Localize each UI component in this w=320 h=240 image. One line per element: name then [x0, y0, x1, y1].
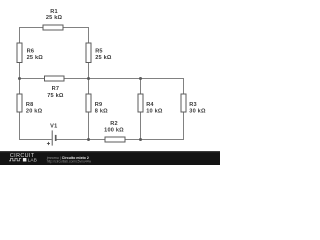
- svg-text:LAB: LAB: [28, 158, 37, 164]
- node junction middle R4: [139, 77, 142, 80]
- svg-text:25 kΩ: 25 kΩ: [46, 15, 63, 21]
- svg-text:R5: R5: [95, 48, 103, 54]
- wire R2 to bottom-right corner up to R3: [125, 112, 183, 140]
- node junction bottom R4: [139, 138, 142, 141]
- svg-text:R9: R9: [95, 102, 103, 108]
- svg-text:R8: R8: [26, 102, 34, 108]
- svg-text:R6: R6: [27, 48, 35, 54]
- wire R8 top: [19, 79, 21, 94]
- svg-text:8 kΩ: 8 kΩ: [95, 109, 108, 115]
- svg-text:V1: V1: [50, 124, 57, 130]
- wire R5 bottom to middle bus: [88, 63, 90, 80]
- resistor R6 25k body: [17, 43, 22, 63]
- wire battery to R2: [56, 139, 105, 141]
- svg-text:20 kΩ: 20 kΩ: [26, 109, 43, 115]
- wire top-right corner (R1 to R5): [64, 28, 89, 44]
- resistor R8 20k body: [17, 94, 22, 112]
- wire top-left corner (node A to R1): [20, 28, 43, 44]
- wire R4 top: [140, 79, 142, 94]
- logo square wave: [9, 158, 21, 160]
- svg-text:R2: R2: [110, 121, 118, 127]
- resistor R9 8k body: [86, 94, 91, 112]
- resistor R3 30k body: [181, 94, 186, 112]
- resistor R2 100k body: [105, 137, 125, 142]
- logo square: [23, 158, 27, 162]
- svg-text:R1: R1: [50, 9, 58, 15]
- wire R8 bottom with corner to battery: [20, 112, 52, 140]
- resistor R4 10k body: [138, 94, 143, 112]
- wire R4 bottom: [140, 112, 142, 140]
- battery V1 long plate: [51, 130, 53, 145]
- svg-text:http://circuitlab.com/c5vnu44w: http://circuitlab.com/c5vnu44w: [47, 160, 92, 164]
- svg-text:25 kΩ: 25 kΩ: [95, 55, 112, 61]
- svg-text:30 kΩ: 30 kΩ: [189, 109, 206, 115]
- resistor R1 25k body: [43, 25, 63, 30]
- resistor R5 25k body: [86, 43, 91, 63]
- wire middle bus right with corner down to R3: [65, 79, 184, 94]
- svg-text:R3: R3: [189, 102, 197, 108]
- resistor R7 75k body: [45, 76, 65, 81]
- wire R9 bottom: [88, 112, 90, 140]
- node junction middle R5/R9: [87, 77, 90, 80]
- battery V1 plus sign: [47, 142, 50, 145]
- svg-text:R7: R7: [52, 86, 60, 92]
- svg-text:25 kΩ: 25 kΩ: [27, 55, 44, 61]
- svg-text:R4: R4: [146, 102, 154, 108]
- battery V1 short plate: [55, 135, 57, 141]
- node junction middle-left: [18, 77, 21, 80]
- svg-text:10 kΩ: 10 kΩ: [146, 109, 163, 115]
- wire R6 bottom to middle bus: [19, 63, 21, 80]
- node junction bottom R9: [87, 138, 90, 141]
- wire middle bus left (node to R7): [20, 78, 45, 80]
- wire R9 top: [88, 79, 90, 94]
- svg-text:100 kΩ: 100 kΩ: [104, 127, 124, 133]
- footer bar: [0, 151, 220, 165]
- svg-text:75 kΩ: 75 kΩ: [47, 93, 64, 99]
